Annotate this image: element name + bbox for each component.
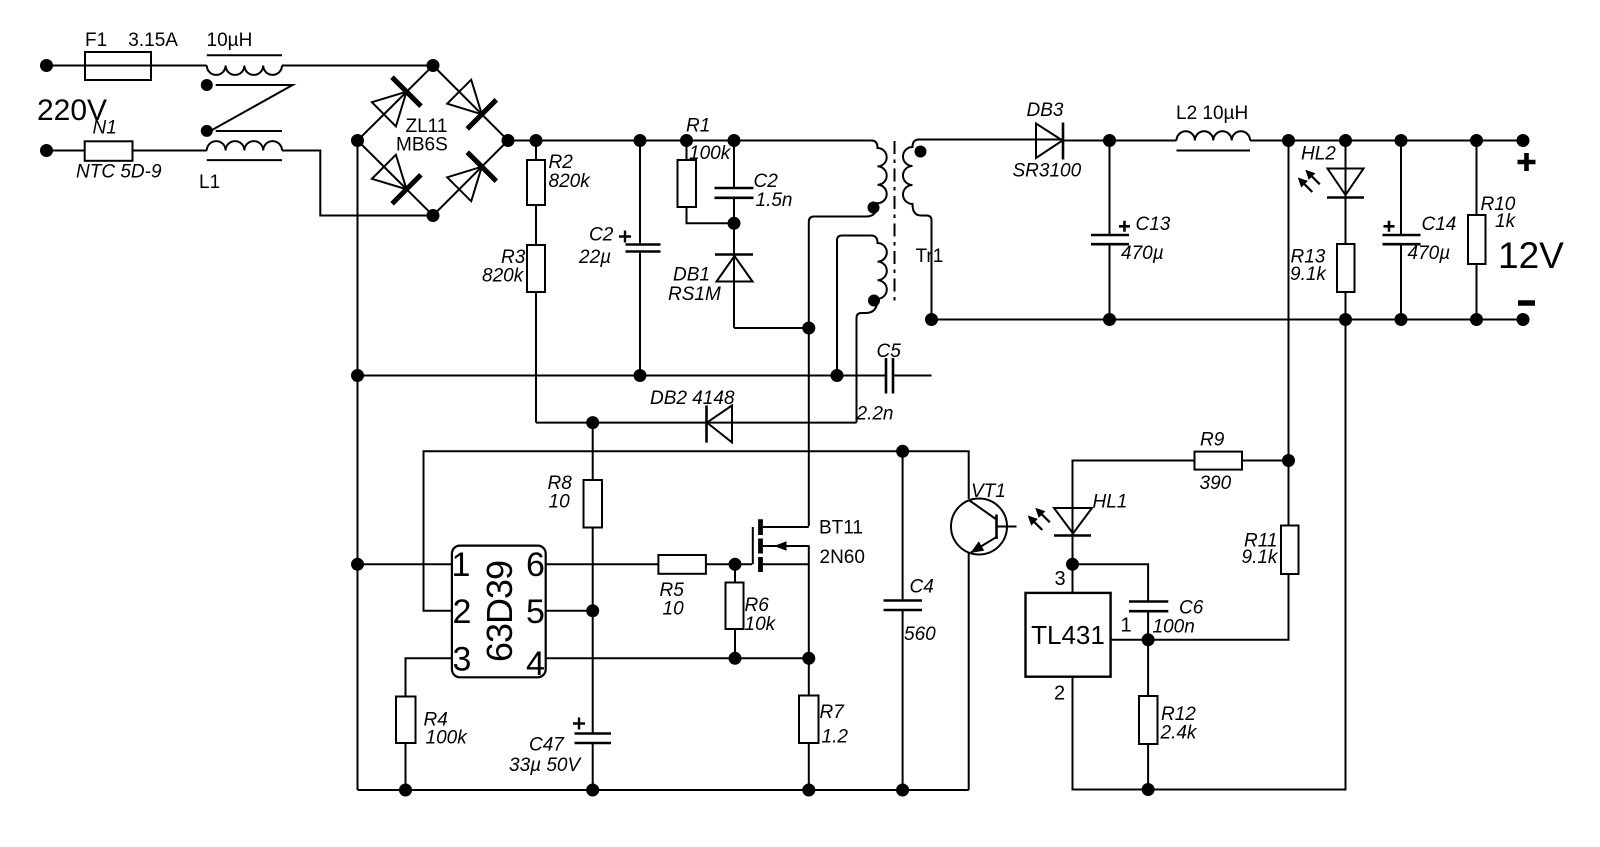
svg-text:10k: 10k	[745, 614, 777, 635]
terminal: AC input bottom	[41, 145, 52, 156]
svg-text:C4: C4	[910, 577, 934, 598]
svg-text:SR3100: SR3100	[1013, 161, 1082, 182]
capacitor C5 2.2n (Y-cap)	[886, 358, 893, 394]
svg-text:820k: 820k	[549, 171, 592, 192]
resistor R6	[734, 564, 736, 582]
phototransistor VT1	[951, 499, 1007, 555]
node: aux top on ground bus	[832, 370, 843, 381]
choke coupling polarity dot bottom	[202, 126, 212, 136]
svg-text:R1: R1	[686, 116, 710, 137]
svg-text:R7: R7	[820, 702, 846, 723]
node: bridge bottom	[428, 210, 439, 221]
wire: pin 4 line	[546, 657, 809, 659]
node: C2 bottom	[635, 370, 646, 381]
node: C4 bottom	[897, 785, 908, 796]
resistor R2	[527, 160, 545, 205]
MOSFET body arrow	[763, 545, 809, 547]
svg-text:NTC 5D-9: NTC 5D-9	[76, 162, 162, 183]
wire: pin 1 to HV minus rail	[358, 563, 452, 565]
node: R12 bottom	[1143, 784, 1154, 795]
svg-text:R9: R9	[1200, 430, 1225, 451]
bridge diode lower-left	[372, 155, 407, 190]
node: feedback tap on +12V	[1283, 135, 1294, 146]
svg-text:2: 2	[453, 593, 472, 631]
wire: pin 5 stub	[546, 610, 593, 612]
wire: secondary top to DB3	[919, 139, 1063, 141]
svg-text:2.4k: 2.4k	[1160, 723, 1198, 744]
wire: R8 feed from DB2 node	[592, 423, 594, 480]
resistor R8	[584, 480, 603, 528]
capacitor C2 1.5n	[733, 141, 735, 189]
node: source-R7-pin4 junction	[803, 653, 814, 664]
node: pin1 junction	[352, 559, 363, 570]
svg-text:390: 390	[1200, 473, 1232, 494]
diode DB1 RS1M	[715, 253, 753, 256]
bridge diode lower-right	[447, 167, 482, 202]
node: TL431 pin3 junction	[1067, 559, 1078, 570]
bridge diode upper-left	[372, 92, 407, 127]
transformer Tr1 core	[894, 141, 896, 305]
wire: L2 to output plus	[1250, 140, 1523, 142]
node: gate-R6 junction	[730, 559, 741, 570]
svg-text:VT1: VT1	[971, 481, 1006, 502]
plus mark C14	[1384, 221, 1395, 232]
wire: primary ground bottom bus	[358, 789, 969, 791]
choke coupling polarity dot top	[202, 80, 212, 90]
transformer Tr1 secondary winding	[903, 140, 931, 320]
node: pin5-R8-C47 junction	[587, 605, 598, 616]
capacitor C4 560	[902, 451, 904, 599]
plus mark C2	[619, 231, 631, 243]
svg-text:100k: 100k	[689, 143, 732, 164]
capacitor C6 100n	[1129, 602, 1168, 612]
svg-text:3: 3	[1055, 568, 1066, 590]
wire: pin 3 to R4	[406, 658, 452, 696]
inductor L2 10uH	[1177, 131, 1251, 140]
capacitor C13 470u	[1109, 141, 1111, 236]
node: C47 bottom	[587, 785, 598, 796]
thermistor N1	[85, 141, 133, 161]
resistor R5	[658, 555, 706, 574]
inductor: choke top winding 10uH	[207, 66, 282, 75]
svg-text:1.2: 1.2	[822, 727, 849, 748]
resistor R12	[1147, 640, 1149, 696]
svg-text:C2: C2	[589, 225, 614, 246]
svg-text:R6: R6	[745, 595, 770, 616]
wire: bottom AC to bridge	[282, 151, 433, 216]
wire: DB3 to L2	[1063, 140, 1177, 142]
node: R4 bottom	[400, 785, 411, 796]
transformer Tr1 aux winding	[842, 236, 887, 423]
resistor R7	[799, 696, 819, 744]
node: DB2-R8 junction	[587, 417, 598, 428]
svg-text:10: 10	[663, 599, 685, 620]
IC TL431 body	[1026, 593, 1111, 677]
transformer Tr1 primary polarity dot	[869, 203, 879, 213]
terminal: 0V output	[1518, 314, 1529, 325]
minus output mark	[1518, 300, 1535, 305]
node: C2 22u top	[635, 135, 646, 146]
svg-text:HL2: HL2	[1301, 144, 1336, 165]
resistor R1	[678, 160, 697, 207]
svg-text:N1: N1	[93, 118, 117, 139]
node: bridge top	[428, 60, 439, 71]
wire: pin3 node to C6	[1073, 564, 1149, 601]
node: bridge left	[352, 135, 363, 146]
resistor R4	[396, 697, 416, 744]
plus output mark	[1518, 153, 1536, 171]
wire: source down to R7	[808, 545, 810, 695]
MOSFET drain wire	[763, 526, 809, 528]
MOSFET channel bars	[758, 519, 763, 572]
wire: +12V feedback drop	[1288, 141, 1290, 461]
svg-text:470µ: 470µ	[1121, 243, 1164, 264]
node: DB1-drain junction	[803, 323, 814, 334]
svg-text:6: 6	[526, 546, 545, 584]
svg-text:22µ: 22µ	[578, 247, 611, 268]
node: R7 bottom	[803, 785, 814, 796]
node: secondary return	[926, 314, 937, 325]
svg-text:2.2n: 2.2n	[856, 404, 894, 425]
svg-text:HL1: HL1	[1093, 492, 1128, 513]
svg-text:DB3: DB3	[1027, 100, 1064, 121]
fuse F1	[85, 52, 151, 80]
IC U1 63D39 body	[452, 546, 546, 678]
svg-text:470µ: 470µ	[1408, 243, 1451, 264]
MOSFET BT11 2N60 gate	[752, 527, 754, 564]
node: R13 bottom	[1340, 314, 1351, 325]
node: C4 top	[897, 446, 908, 457]
node: C6-R12 junction	[1143, 634, 1154, 645]
node: C2 1.5n top	[729, 135, 740, 146]
wire: pin 6 to R5	[546, 563, 659, 565]
LED HL2	[1345, 141, 1347, 245]
bridge rectifier ZL11 MB6S diamond	[358, 66, 509, 216]
LED HL1 emission arrows	[1042, 514, 1050, 522]
svg-text:C2: C2	[754, 171, 779, 192]
transformer Tr1 secondary polarity dot	[916, 147, 926, 157]
capacitor C2 22u electrolytic	[639, 141, 641, 245]
svg-text:820k: 820k	[482, 266, 525, 287]
svg-text:C13: C13	[1136, 214, 1171, 235]
svg-text:2N60: 2N60	[820, 547, 865, 568]
wire: pin 2 up and across to VT1	[424, 451, 969, 611]
resistor R10	[1476, 141, 1478, 216]
terminal: AC input top	[41, 60, 52, 71]
MOSFET source wire	[763, 563, 809, 565]
terminal: +12V output	[1518, 135, 1529, 146]
wire: output bottom bus	[932, 319, 1524, 321]
node: bridge right	[503, 135, 514, 146]
transformer Tr1 primary winding	[809, 141, 887, 527]
svg-text:560: 560	[904, 624, 936, 645]
resistor R13	[1337, 244, 1355, 292]
inductor L1 (choke bottom winding)	[207, 141, 282, 150]
transformer Tr1 aux polarity dot	[869, 296, 879, 306]
node: C13 top	[1104, 135, 1115, 146]
svg-text:TL431: TL431	[1031, 620, 1105, 650]
node: C14 bottom	[1396, 314, 1407, 325]
svg-text:DB1: DB1	[673, 265, 710, 286]
wire: bridge negative left vertical	[357, 141, 359, 791]
node: HL2 top	[1340, 135, 1351, 146]
svg-text:2: 2	[1054, 683, 1065, 705]
wire: DB2 branch	[536, 422, 857, 424]
svg-text:R2: R2	[549, 152, 574, 173]
svg-text:9.1k: 9.1k	[1290, 264, 1327, 285]
svg-text:1.5n: 1.5n	[756, 190, 793, 211]
svg-text:12V: 12V	[1498, 235, 1564, 276]
node: R6 bottom	[730, 653, 741, 664]
svg-text:C5: C5	[877, 341, 902, 362]
node: R10 top	[1471, 135, 1482, 146]
svg-text:5: 5	[526, 593, 545, 631]
svg-text:Tr1: Tr1	[916, 246, 944, 267]
wire: top AC to bridge	[282, 65, 433, 67]
svg-text:9.1k: 9.1k	[1242, 547, 1279, 568]
node: C14 top	[1396, 135, 1407, 146]
svg-text:33µ 50V: 33µ 50V	[509, 755, 582, 776]
capacitor C47 33u 50V	[575, 734, 612, 744]
svg-text:4: 4	[526, 645, 545, 683]
wire: AC top line	[47, 65, 207, 67]
svg-text:C6: C6	[1179, 598, 1204, 619]
svg-text:L2 10µH: L2 10µH	[1176, 103, 1248, 124]
svg-text:RS1M: RS1M	[668, 284, 721, 305]
svg-text:MB6S: MB6S	[396, 135, 448, 156]
resistor R9	[1243, 460, 1289, 462]
svg-text:1: 1	[1121, 615, 1132, 637]
svg-text:10µH: 10µH	[207, 30, 253, 51]
node: C13 bottom	[1104, 314, 1115, 325]
wire: primary ground bus	[358, 375, 887, 377]
svg-text:1k: 1k	[1495, 211, 1517, 232]
choke coupling zigzag mark	[210, 85, 292, 131]
LED HL2 emission arrows	[1312, 176, 1320, 184]
wire: TL431 pin2 to 0V return	[1073, 320, 1346, 790]
resistor R3	[527, 245, 545, 292]
svg-text:BT11: BT11	[819, 518, 863, 539]
node: R1-C2 junction	[729, 218, 740, 229]
svg-text:C47: C47	[529, 735, 565, 756]
bridge diode upper-right	[447, 80, 482, 115]
node: R2 top	[531, 135, 542, 146]
svg-text:10: 10	[549, 492, 571, 513]
svg-text:100n: 100n	[1153, 617, 1195, 638]
LED HL1 (optocoupler)	[1072, 508, 1074, 593]
node: R1 top	[681, 135, 692, 146]
wire: VT1 emitter down	[968, 554, 970, 791]
svg-text:63D39: 63D39	[479, 561, 520, 662]
wire: TL431 pin1 to R11	[1111, 574, 1289, 640]
diode DB3 SR3100	[1036, 124, 1063, 159]
svg-text:C14: C14	[1422, 214, 1457, 235]
wire: HV bus top	[508, 140, 872, 142]
diode DB2 4148	[705, 405, 708, 442]
svg-text:100k: 100k	[426, 728, 469, 749]
svg-text:L1: L1	[199, 172, 220, 193]
resistor R11	[1281, 526, 1299, 575]
wire: AC bottom line	[47, 150, 207, 152]
svg-text:F1 3.15A: F1 3.15A	[85, 30, 178, 51]
node: R9-R11 junction	[1283, 455, 1294, 466]
capacitor C14 470u	[1400, 141, 1402, 236]
node: R10 bottom	[1471, 314, 1482, 325]
plus mark C13	[1119, 221, 1130, 232]
plus mark C47	[573, 718, 585, 730]
node: ground bus left	[352, 370, 363, 381]
svg-text:1: 1	[452, 546, 471, 584]
svg-text:DB2 4148: DB2 4148	[650, 388, 735, 409]
svg-text:3: 3	[453, 641, 472, 679]
